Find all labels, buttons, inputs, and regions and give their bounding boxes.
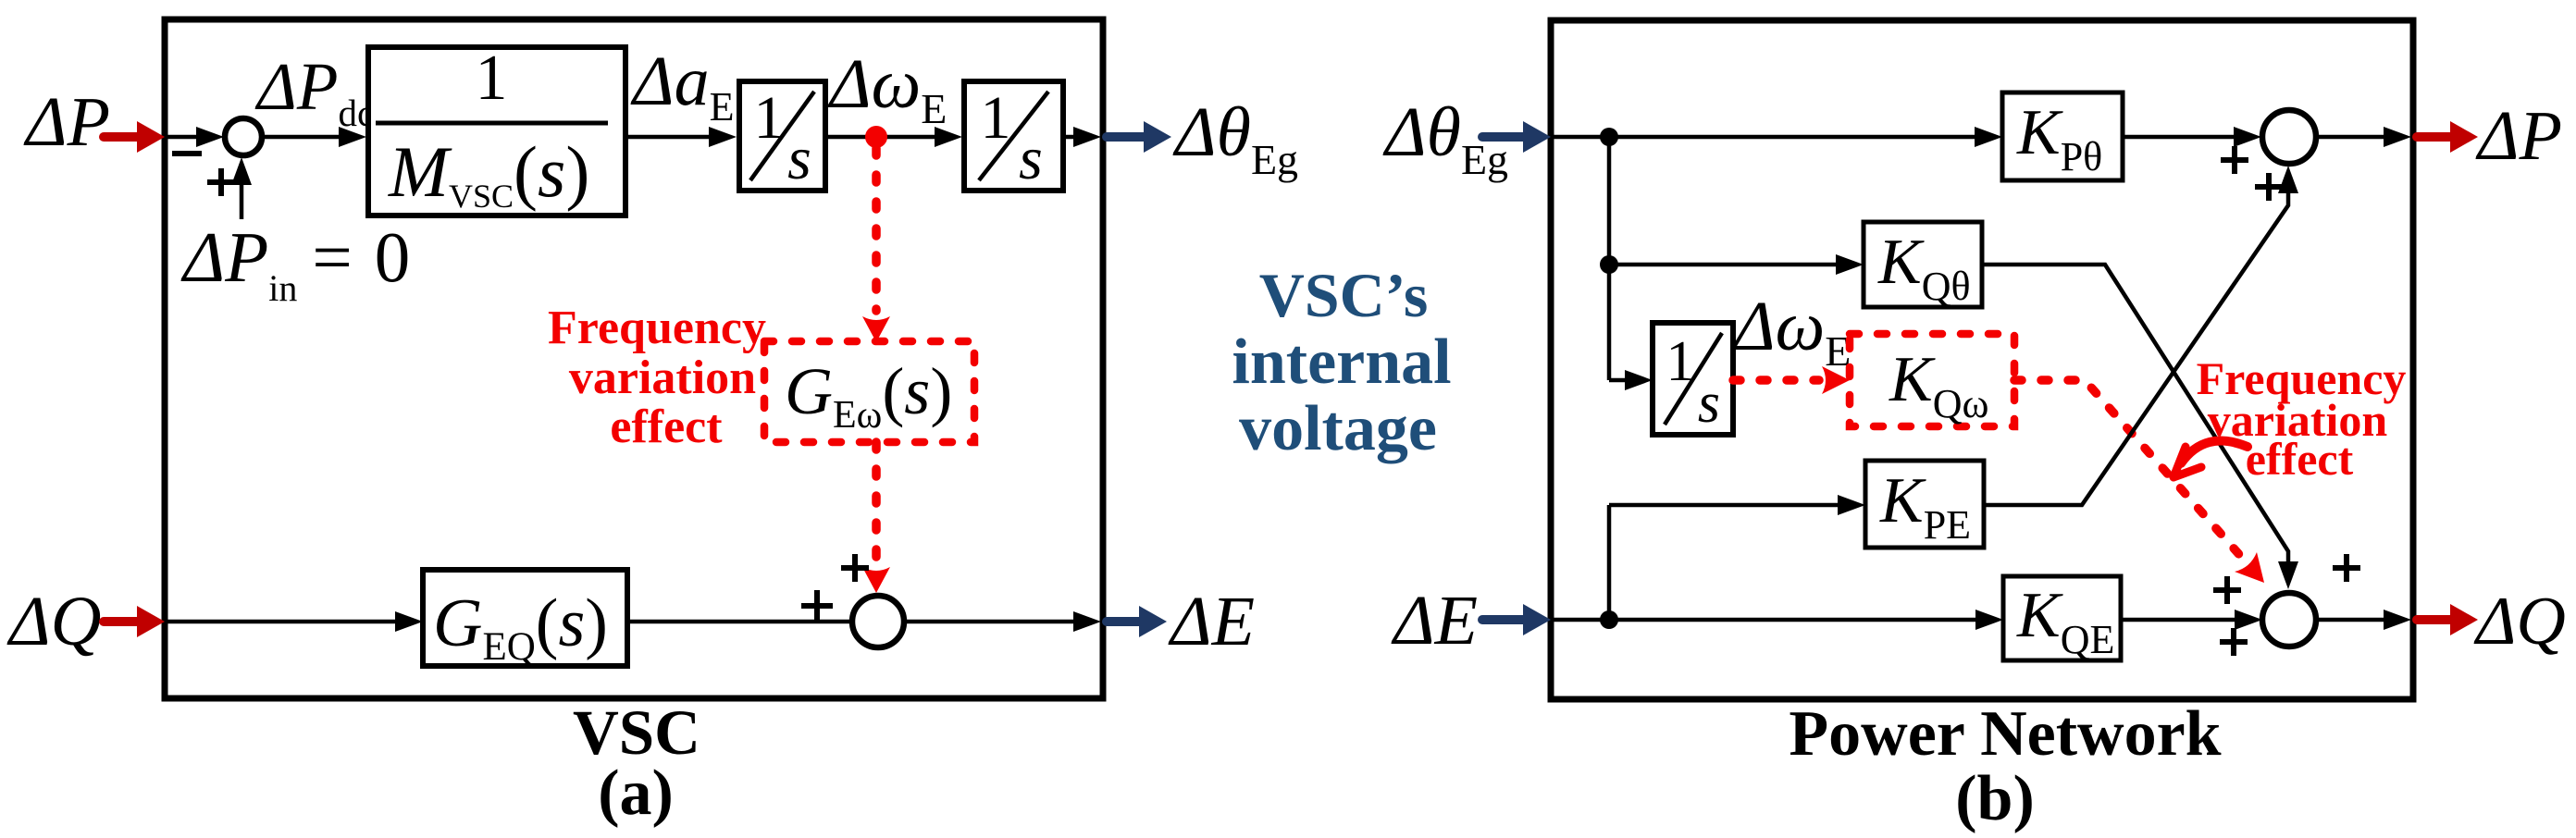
wire frame to block Geq — [167, 620, 401, 624]
svg-text:s: s — [787, 125, 811, 192]
block Kqe box — [2003, 576, 2121, 660]
svg-text:1: 1 — [1666, 330, 1695, 393]
summing junction S5 — [2262, 593, 2316, 647]
red dashed wire dwE down to Gew — [872, 148, 881, 311]
output arrow dE (navy) — [1107, 617, 1143, 626]
wire Kpe diagonal up to summing S3 — [1984, 191, 2288, 505]
node dot theta-1 — [1600, 128, 1618, 146]
svg-text:ΔPdc: ΔPdc — [254, 49, 374, 134]
svg-text:voltage: voltage — [1239, 393, 1437, 464]
wire S1 to block M — [262, 135, 344, 140]
plus sign below S3 — [2255, 184, 2283, 190]
summing junction S3 — [2262, 110, 2316, 164]
red dashed wire Gew down to summing S2 — [872, 442, 881, 559]
input arrow dThetaEg (navy) — [1482, 132, 1527, 142]
output arrow dQ (dark red) — [2417, 615, 2454, 624]
node dot E-1 — [1600, 610, 1618, 629]
integrator block I2 (1/s) — [964, 81, 1063, 191]
block 1/Mvsc(s) fraction bar — [376, 121, 608, 126]
block Kqtheta box — [1864, 222, 1982, 307]
node dot dwE (red) — [865, 126, 887, 148]
block Kptheta box — [2002, 92, 2123, 180]
svg-text:effect: effect — [2246, 433, 2354, 485]
svg-text:s: s — [1698, 372, 1720, 435]
svg-text:internal: internal — [1232, 327, 1451, 398]
svg-text:variation: variation — [569, 351, 756, 404]
svg-text:(a): (a) — [598, 758, 674, 829]
input arrow dE (navy) — [1482, 615, 1527, 624]
wire Kqe to summing S5 — [2121, 618, 2240, 622]
wire node theta-2 to block Kqtheta — [1609, 263, 1841, 267]
block Kpe box — [1865, 461, 1984, 548]
wire dThetaEg to block Kptheta — [1554, 135, 1980, 140]
svg-text:Frequency: Frequency — [548, 302, 766, 354]
wire I1 to integrator I2 — [825, 135, 940, 140]
svg-text:1: 1 — [981, 84, 1011, 152]
plus sign lower-left of S5 — [2220, 639, 2248, 645]
svg-text:ΔωE: ΔωE — [827, 45, 947, 132]
panel (a) VSC outer frame — [165, 19, 1103, 698]
summing junction S2 — [852, 596, 904, 647]
input arrow dQ (dark red) — [104, 617, 141, 626]
svg-text:ΔQ: ΔQ — [2473, 584, 2566, 659]
svg-text:KQω: KQω — [1889, 344, 1988, 426]
plus sign left of S3 — [2221, 157, 2248, 163]
svg-text:ΔP: ΔP — [23, 83, 110, 161]
svg-text:GEω(s): GEω(s) — [785, 354, 952, 437]
wire dE to block Kqe — [1554, 618, 1981, 622]
wire frame to summing S1 — [167, 135, 201, 140]
svg-text:ΔQ: ΔQ — [6, 583, 102, 660]
svg-text:s: s — [1019, 125, 1043, 192]
red dashed wire Kqw diagonal down to summing S5 — [2014, 380, 2243, 559]
red dashed wire I3 to Kqw — [1733, 376, 1819, 385]
wire S2 to frame edge — [904, 620, 1079, 624]
red dashed box Kqw — [1850, 334, 2014, 426]
svg-text:ΔP: ΔP — [2475, 97, 2562, 175]
plus sign upper-left of S5 — [2213, 587, 2241, 593]
svg-text:ΔE: ΔE — [1391, 582, 1478, 659]
svg-text:1: 1 — [754, 84, 785, 152]
red dashed box Gew(s) — [764, 341, 974, 442]
svg-text:ΔθEg: ΔθEg — [1172, 93, 1298, 183]
wire node theta-2 down and into integrator I3 — [1607, 265, 1612, 380]
minus sign at S1 — [172, 151, 202, 156]
output arrow dP (dark red) — [2417, 132, 2454, 142]
wire node theta-1 down to node theta-2 — [1607, 137, 1612, 265]
integrator block I3 (1/s) — [1653, 323, 1733, 435]
plus sign left of S2 — [801, 603, 833, 609]
svg-text:1: 1 — [476, 43, 508, 114]
plus sign at S1 — [207, 179, 235, 185]
wire S5 to frame edge — [2316, 618, 2389, 622]
plus sign above S2 — [841, 565, 869, 571]
wire node E-1 up and into block Kpe — [1607, 505, 1612, 620]
svg-text:Power Network: Power Network — [1789, 698, 2221, 770]
wire M to integrator I1 — [625, 135, 714, 140]
red annotation curved arrow (panel b) — [2181, 441, 2248, 463]
wire Kptheta to summing S3 — [2123, 135, 2239, 140]
block 1/Mvsc(s) box — [368, 47, 625, 216]
svg-text:(b): (b) — [1955, 763, 2035, 834]
svg-text:VSC’s: VSC’s — [1259, 260, 1429, 330]
wire Kqtheta diagonal down to summing S5 — [1982, 265, 2288, 567]
output arrow dThetaEg (navy) — [1107, 132, 1147, 142]
summing junction S1 — [225, 118, 262, 155]
node dot theta-2 — [1600, 255, 1618, 274]
wire Geq to summing S2 — [627, 620, 852, 624]
svg-text:effect: effect — [610, 401, 723, 453]
svg-text:ΔPin=0: ΔPin=0 — [180, 217, 410, 309]
input arrow dP (dark red) — [104, 132, 141, 142]
wire S3 to frame edge — [2316, 135, 2389, 140]
svg-text:ΔaE: ΔaE — [630, 43, 735, 129]
panel (b) Power Network outer frame — [1551, 20, 2413, 699]
plus sign upper-right of S5 — [2333, 565, 2360, 571]
block Geq(s) box — [423, 570, 627, 666]
integrator block I1 (1/s) — [739, 81, 825, 191]
svg-text:ΔωE: ΔωE — [1731, 288, 1851, 375]
wire dPin up into S1 — [240, 181, 244, 219]
wire I2 to frame edge — [1063, 135, 1079, 140]
svg-text:ΔE: ΔE — [1168, 583, 1255, 660]
